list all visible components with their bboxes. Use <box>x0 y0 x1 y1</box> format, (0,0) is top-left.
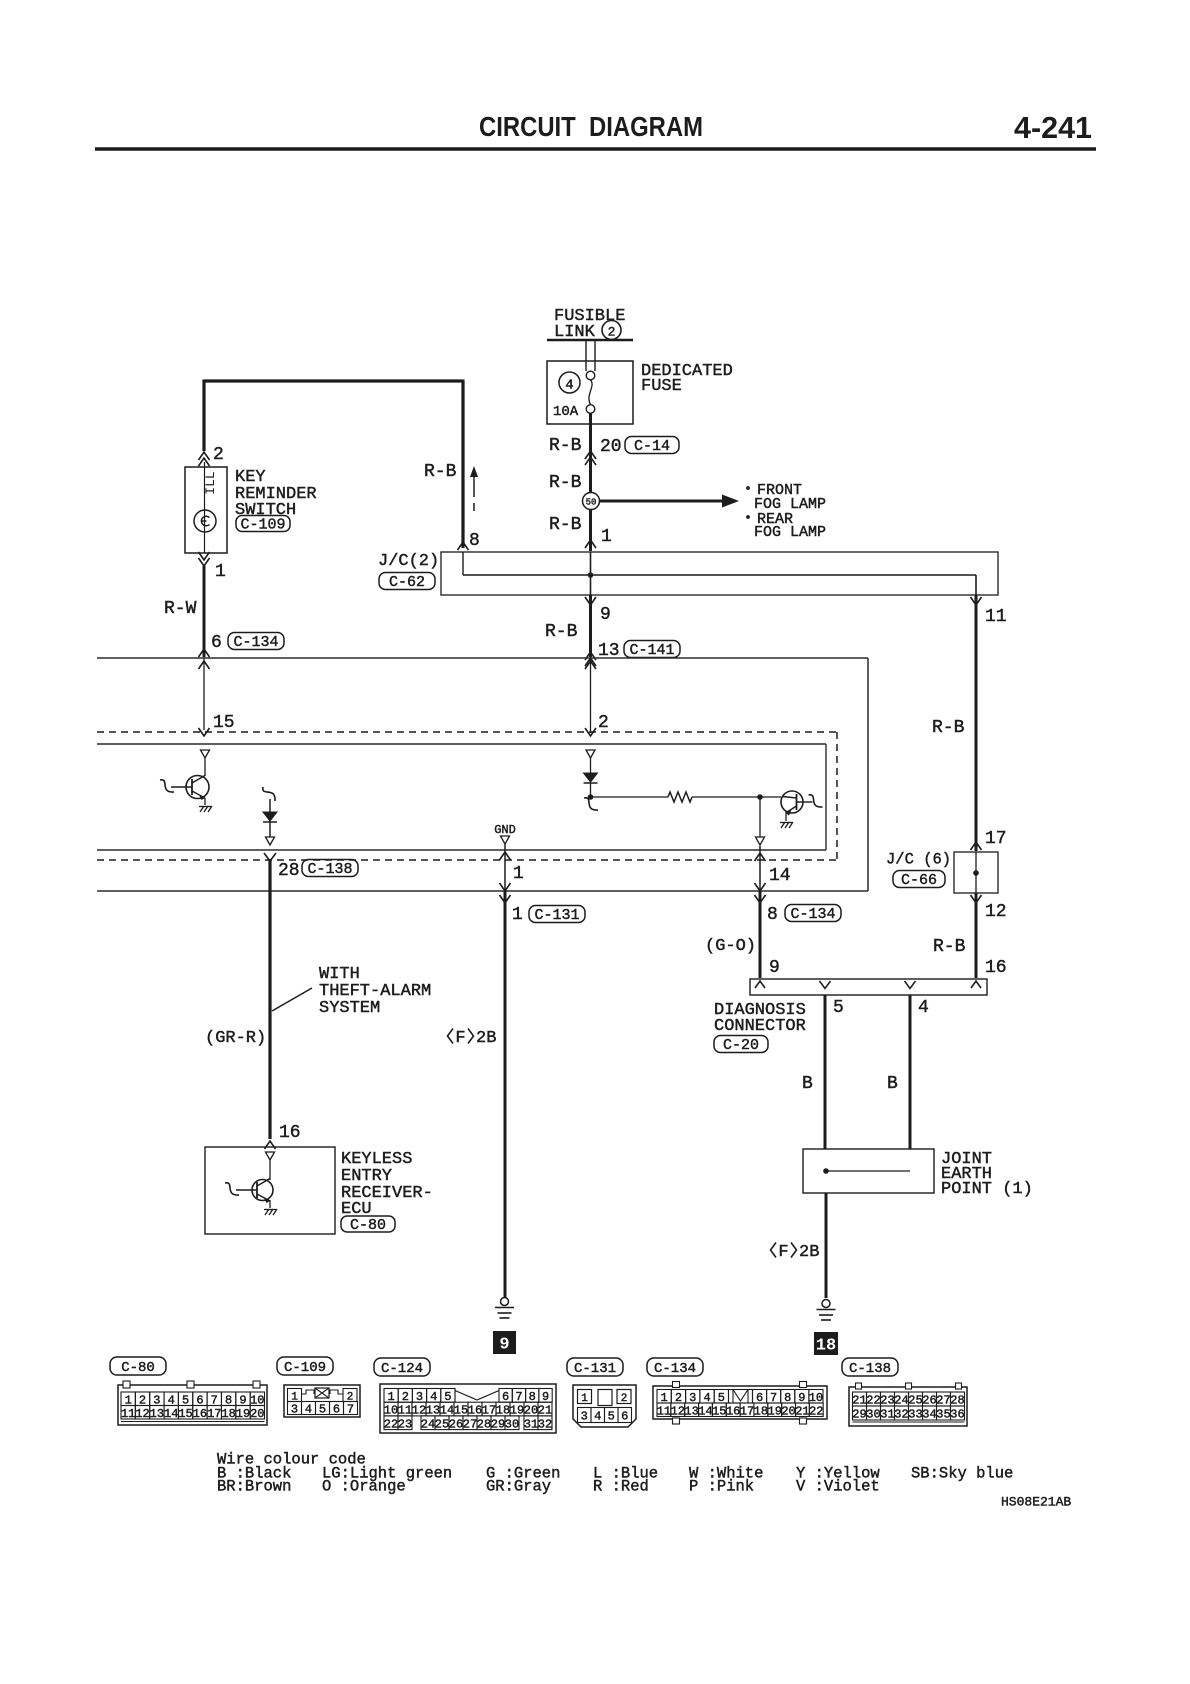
svg-text:15: 15 <box>712 1404 726 1418</box>
svg-text:C-131: C-131 <box>534 907 579 924</box>
svg-text:C-66: C-66 <box>901 872 937 889</box>
svg-text:GND: GND <box>494 823 516 837</box>
svg-text:16: 16 <box>193 1407 207 1421</box>
svg-text:20: 20 <box>781 1404 795 1418</box>
svg-text:9: 9 <box>499 1335 509 1354</box>
svg-text:5: 5 <box>608 1410 615 1424</box>
svg-text:32: 32 <box>538 1417 552 1431</box>
svg-text:FUSE: FUSE <box>641 377 682 396</box>
svg-text:19: 19 <box>236 1407 250 1421</box>
svg-text:2: 2 <box>621 1393 628 1405</box>
svg-text:13: 13 <box>150 1407 164 1421</box>
svg-text:FOG LAMP: FOG LAMP <box>754 524 826 541</box>
svg-text:2B: 2B <box>476 1029 496 1048</box>
svg-text:26: 26 <box>449 1417 463 1431</box>
svg-text:25: 25 <box>435 1417 449 1431</box>
svg-text:(GR-R): (GR-R) <box>205 1029 266 1048</box>
svg-text:R :Red: R :Red <box>593 1477 649 1495</box>
svg-text:4: 4 <box>594 1410 601 1424</box>
svg-text:16: 16 <box>726 1404 740 1418</box>
svg-text:1: 1 <box>215 562 226 582</box>
svg-text:POINT (1): POINT (1) <box>941 1180 1033 1199</box>
svg-text:F: F <box>778 1243 788 1262</box>
svg-text:R-B: R-B <box>549 436 582 456</box>
svg-text:C-80: C-80 <box>121 1360 155 1376</box>
svg-text:J/C(2): J/C(2) <box>378 552 439 571</box>
svg-text:C-131: C-131 <box>574 1361 616 1377</box>
svg-text:7: 7 <box>347 1403 354 1417</box>
svg-text:12: 12 <box>985 902 1007 922</box>
svg-text:(G-O): (G-O) <box>705 937 756 956</box>
svg-text:21: 21 <box>795 1404 809 1418</box>
svg-text:C-109: C-109 <box>284 1360 326 1376</box>
svg-text:2: 2 <box>598 713 609 733</box>
svg-text:2: 2 <box>213 445 224 465</box>
svg-text:8: 8 <box>767 905 778 925</box>
svg-text:16: 16 <box>985 958 1007 978</box>
svg-text:10A: 10A <box>553 404 579 420</box>
svg-text:32: 32 <box>894 1408 908 1422</box>
svg-text:C-134: C-134 <box>654 1361 696 1377</box>
svg-text:17: 17 <box>985 829 1007 849</box>
svg-text:13: 13 <box>684 1404 698 1418</box>
svg-text:4: 4 <box>918 998 929 1018</box>
svg-text:O :Orange: O :Orange <box>322 1477 406 1495</box>
svg-text:18: 18 <box>754 1404 768 1418</box>
svg-text:6: 6 <box>333 1403 340 1417</box>
svg-text:30: 30 <box>505 1417 519 1431</box>
svg-text:CONNECTOR: CONNECTOR <box>714 1017 806 1036</box>
svg-text:C-62: C-62 <box>389 574 425 591</box>
svg-text:19: 19 <box>768 1404 782 1418</box>
svg-text:11: 11 <box>985 607 1007 627</box>
svg-text:R-W: R-W <box>164 599 197 619</box>
svg-text:14: 14 <box>769 866 791 886</box>
svg-text:16: 16 <box>279 1123 301 1143</box>
svg-text:22: 22 <box>809 1404 823 1418</box>
svg-text:B: B <box>802 1074 813 1094</box>
svg-text:R-B: R-B <box>932 718 965 738</box>
svg-text:V :Violet: V :Violet <box>796 1477 880 1495</box>
svg-text:B: B <box>887 1074 898 1094</box>
svg-text:24: 24 <box>421 1417 435 1431</box>
svg-text:28: 28 <box>278 861 300 881</box>
svg-text:C-141: C-141 <box>629 642 674 659</box>
svg-text:34: 34 <box>922 1408 936 1422</box>
svg-text:ILL: ILL <box>203 471 218 494</box>
svg-text:2B: 2B <box>799 1243 819 1262</box>
svg-text:R-B: R-B <box>549 473 582 493</box>
svg-text:27: 27 <box>463 1417 477 1431</box>
svg-text:C-124: C-124 <box>381 1361 423 1377</box>
svg-text:SYSTEM: SYSTEM <box>319 999 380 1018</box>
svg-text:1: 1 <box>512 905 523 925</box>
svg-text:12: 12 <box>135 1407 149 1421</box>
svg-text:C-138: C-138 <box>849 1361 891 1377</box>
svg-text:4: 4 <box>565 377 573 393</box>
svg-text:8: 8 <box>469 531 480 551</box>
svg-text:SB:Sky blue: SB:Sky blue <box>911 1464 1013 1482</box>
svg-text:C-134: C-134 <box>790 906 835 923</box>
svg-text:23: 23 <box>398 1417 412 1431</box>
svg-text:50: 50 <box>586 498 597 508</box>
svg-text:C-14: C-14 <box>634 438 670 455</box>
svg-text:17: 17 <box>207 1407 221 1421</box>
svg-text:11: 11 <box>121 1407 135 1421</box>
svg-text:C-20: C-20 <box>723 1037 759 1054</box>
svg-text:14: 14 <box>164 1407 178 1421</box>
svg-text:HS08E21AB: HS08E21AB <box>1001 1494 1071 1509</box>
svg-text:15: 15 <box>213 713 235 733</box>
svg-text:GR:Gray: GR:Gray <box>486 1477 551 1495</box>
svg-text:31: 31 <box>880 1408 894 1422</box>
svg-text:C-109: C-109 <box>240 517 285 534</box>
svg-text:12: 12 <box>671 1404 685 1418</box>
svg-text:C-134: C-134 <box>233 634 278 651</box>
svg-text:C-80: C-80 <box>350 1217 386 1234</box>
svg-text:31: 31 <box>524 1417 538 1431</box>
svg-text:4-241: 4-241 <box>1014 110 1092 145</box>
svg-text:CIRCUIT DIAGRAM: CIRCUIT DIAGRAM <box>479 111 703 142</box>
svg-text:R-B: R-B <box>549 515 582 535</box>
svg-text:14: 14 <box>698 1404 712 1418</box>
svg-text:4: 4 <box>305 1403 312 1417</box>
svg-text:9: 9 <box>769 958 780 978</box>
svg-text:R-B: R-B <box>545 622 578 642</box>
svg-text:BR:Brown: BR:Brown <box>217 1477 291 1495</box>
svg-text:18: 18 <box>221 1407 235 1421</box>
svg-text:30: 30 <box>866 1408 880 1422</box>
svg-text:33: 33 <box>908 1408 922 1422</box>
svg-text:1: 1 <box>581 1393 588 1405</box>
svg-text:3: 3 <box>581 1410 588 1424</box>
svg-text:1: 1 <box>513 864 524 884</box>
svg-text:9: 9 <box>600 605 611 625</box>
svg-text:3: 3 <box>291 1403 298 1417</box>
svg-text:36: 36 <box>950 1408 964 1422</box>
svg-text:11: 11 <box>657 1404 671 1418</box>
svg-text:F: F <box>455 1029 465 1048</box>
svg-text:29: 29 <box>852 1408 866 1422</box>
svg-text:R-B: R-B <box>933 937 966 957</box>
svg-text:5: 5 <box>319 1403 326 1417</box>
svg-text:35: 35 <box>936 1408 950 1422</box>
svg-text:18: 18 <box>816 1336 836 1355</box>
svg-text:17: 17 <box>740 1404 754 1418</box>
svg-text:5: 5 <box>833 998 844 1018</box>
svg-text:2: 2 <box>608 324 616 339</box>
svg-text:6: 6 <box>621 1410 628 1424</box>
svg-text:20: 20 <box>250 1407 264 1421</box>
svg-text:6: 6 <box>211 633 222 653</box>
svg-text:22: 22 <box>384 1417 398 1431</box>
svg-text:15: 15 <box>178 1407 192 1421</box>
svg-text:28: 28 <box>477 1417 491 1431</box>
svg-text:1: 1 <box>601 527 612 547</box>
svg-text:R-B: R-B <box>424 462 457 482</box>
svg-text:P :Pink: P :Pink <box>689 1477 754 1495</box>
svg-text:J/C (6): J/C (6) <box>886 850 951 868</box>
svg-text:20: 20 <box>600 437 622 457</box>
svg-text:29: 29 <box>491 1417 505 1431</box>
svg-text:C-138: C-138 <box>307 861 352 878</box>
